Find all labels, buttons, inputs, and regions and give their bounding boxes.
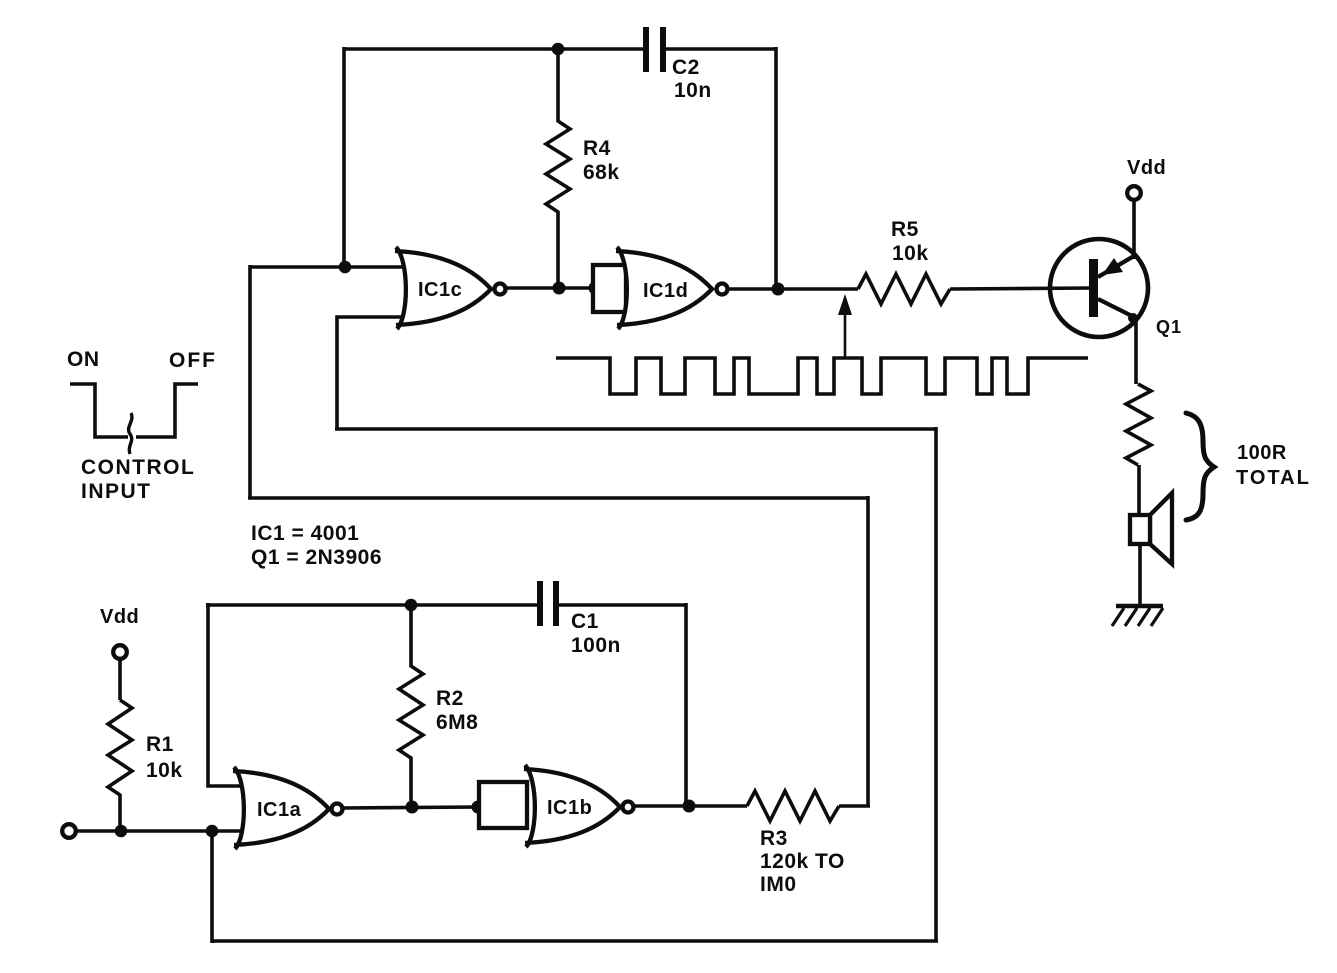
- wire feedback horizontal: [248, 496, 868, 500]
- wire IC1c top input: [250, 265, 408, 269]
- break squiggle on control waveform: [129, 413, 132, 454]
- wire control right vertical: [934, 427, 938, 941]
- resistor R5: [858, 218, 950, 304]
- svg-text:CONTROL: CONTROL: [81, 456, 195, 479]
- svg-text:R2: R2: [436, 687, 464, 710]
- svg-text:6M8: 6M8: [436, 711, 478, 734]
- node junction C1 right drop: [683, 800, 696, 813]
- svg-text:Q1 = 2N3906: Q1 = 2N3906: [251, 546, 382, 569]
- wire top rail (bottom oscillator) right segment: [559, 603, 686, 607]
- wire top rail left segment: [343, 47, 644, 51]
- nor gate IC1a: [233, 767, 343, 849]
- svg-text:Vdd: Vdd: [100, 606, 139, 628]
- input tie box IC1d: [593, 265, 626, 312]
- nor gate IC1b: [524, 765, 634, 847]
- wire Vdd to R1: [118, 659, 122, 700]
- input terminal: [62, 824, 76, 838]
- wire resistor to speaker: [1137, 465, 1141, 517]
- wire IC1c output to IC1d input: [507, 286, 596, 290]
- svg-text:68k: 68k: [583, 161, 620, 184]
- wire IC1d output to R5: [729, 287, 858, 291]
- nor gate IC1d: [616, 247, 728, 329]
- capacitor C1: [540, 581, 621, 657]
- svg-text:OFF: OFF: [169, 349, 217, 372]
- svg-text:IC1a: IC1a: [257, 799, 302, 821]
- node junction R1 bottom: [115, 825, 128, 838]
- svg-text:INPUT: INPUT: [81, 480, 152, 503]
- wire collector down: [1134, 316, 1138, 384]
- wire IC1b output to R3: [634, 804, 747, 808]
- brace 100R total: [1186, 413, 1214, 520]
- wire down to bottom rail: [210, 831, 214, 943]
- wire bottom rail: [212, 939, 938, 943]
- wire from top rail down to IC1c input: [342, 47, 346, 267]
- wire IC1a output to IC1b input: [343, 807, 480, 808]
- speaker LS1: [1130, 493, 1172, 564]
- wire control horizontal to right vertical: [335, 427, 936, 431]
- node junction C2 right drop: [772, 283, 785, 296]
- resistor R1: [108, 700, 183, 831]
- svg-text:100R: 100R: [1237, 442, 1287, 464]
- node connection at IC1d input: [589, 282, 602, 295]
- resistor R4: [546, 49, 620, 288]
- svg-text:IC1b: IC1b: [547, 797, 592, 819]
- control input waveform: [70, 384, 128, 437]
- svg-text:C2: C2: [672, 56, 700, 79]
- wire emitter up to Vdd: [1132, 199, 1136, 259]
- resistor (speaker series, part of 100R): [1126, 384, 1151, 465]
- resistor R3: [747, 791, 845, 896]
- arrow from waveform to output wire: [838, 294, 852, 358]
- capacitor C2: [646, 27, 712, 102]
- svg-text:IC1 = 4001: IC1 = 4001: [251, 522, 359, 545]
- svg-text:100n: 100n: [571, 634, 621, 657]
- svg-text:Vdd: Vdd: [1127, 157, 1166, 179]
- resistor R2: [399, 605, 478, 806]
- svg-text:R3: R3: [760, 827, 788, 850]
- wire top rail right segment: [666, 47, 776, 51]
- wire input line: [76, 829, 246, 833]
- wire IC1c bottom input: [337, 317, 408, 429]
- waveform gated square wave: [556, 358, 1088, 394]
- wire feedback left vertical: [248, 265, 252, 498]
- wire IC1a top input from rail: [208, 603, 248, 786]
- svg-text:R4: R4: [583, 137, 611, 160]
- input tie box IC1b: [479, 782, 527, 828]
- svg-text:IC1c: IC1c: [418, 279, 462, 301]
- svg-text:TOTAL: TOTAL: [1236, 467, 1311, 489]
- svg-text:C1: C1: [571, 610, 599, 633]
- wire feedback down to R3 right end: [866, 496, 870, 806]
- svg-text:IC1d: IC1d: [643, 280, 688, 302]
- node junction on IC1c top input: [339, 261, 352, 274]
- svg-text:10k: 10k: [892, 242, 929, 265]
- wire C2 right vertical: [774, 47, 778, 289]
- transistor Q1: [1050, 239, 1182, 337]
- svg-text:120k TO: 120k TO: [760, 850, 845, 873]
- wire R5 to Q1 base: [950, 288, 1092, 289]
- node junction R4 bottom: [553, 282, 566, 295]
- node junction R4 top on rail: [552, 43, 565, 56]
- svg-text:IM0: IM0: [760, 873, 797, 896]
- Vdd terminal: [1127, 186, 1141, 200]
- svg-text:R5: R5: [891, 218, 919, 241]
- svg-text:ON: ON: [67, 348, 100, 371]
- node junction R2 top: [405, 599, 418, 612]
- svg-text:Q1: Q1: [1156, 317, 1182, 337]
- ground: [1112, 606, 1163, 626]
- wire C1 right vertical: [684, 603, 688, 806]
- svg-text:R1: R1: [146, 733, 174, 756]
- wire speaker to ground: [1138, 544, 1142, 606]
- Vdd terminal (bottom): [113, 645, 127, 659]
- svg-text:10k: 10k: [146, 759, 183, 782]
- wire top rail (bottom oscillator) left segment: [206, 603, 538, 607]
- svg-text:10n: 10n: [674, 79, 712, 102]
- node junction control branch: [206, 825, 219, 838]
- nor gate IC1c: [395, 247, 506, 329]
- wire R3 right: [839, 804, 870, 808]
- node junction R2 bottom: [406, 801, 419, 814]
- node connection at IC1b input: [472, 801, 485, 814]
